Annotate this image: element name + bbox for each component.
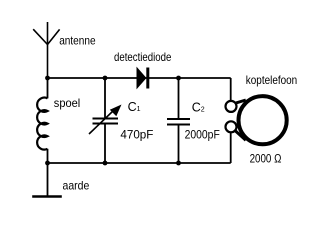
- wire left rail lower: [47, 149, 49, 163]
- headphone terminal stem bottom: [234, 130, 246, 140]
- svg-text:detectiediode: detectiediode: [114, 50, 172, 64]
- headphone terminal bottom: [226, 121, 237, 132]
- svg-text:antenne: antenne: [59, 34, 96, 48]
- node junction top C1: [103, 76, 108, 81]
- variable capacitor C1: [89, 78, 122, 163]
- node junction bottom C1: [103, 161, 108, 166]
- wire bottom horizontal: [48, 162, 231, 164]
- antenna: [33, 22, 59, 78]
- diode D1: [137, 68, 148, 89]
- node junction bottom-left: [45, 161, 50, 166]
- svg-text:2000pF: 2000pF: [185, 130, 220, 142]
- capacitor C2: [167, 78, 190, 163]
- svg-text:470pF: 470pF: [120, 130, 153, 142]
- svg-text:koptelefoon: koptelefoon: [246, 73, 297, 87]
- svg-text:aarde: aarde: [63, 179, 90, 193]
- ground (aarde): [32, 163, 62, 197]
- node junction bottom C2: [176, 161, 181, 166]
- svg-text:spoel: spoel: [54, 96, 80, 110]
- wire top horizontal: [48, 77, 231, 79]
- svg-text:2000 Ω: 2000 Ω: [250, 153, 282, 165]
- wire to headphone top: [230, 78, 232, 101]
- headphone terminal stem top: [234, 100, 246, 104]
- headphone body: [239, 96, 287, 144]
- headphone terminal top: [226, 101, 237, 112]
- node junction top-left: [45, 76, 50, 81]
- inductor L1 (spoel): [37, 98, 47, 150]
- wire from headphone bottom: [230, 133, 232, 164]
- wire left rail upper: [47, 78, 49, 98]
- node junction top C2: [176, 76, 181, 81]
